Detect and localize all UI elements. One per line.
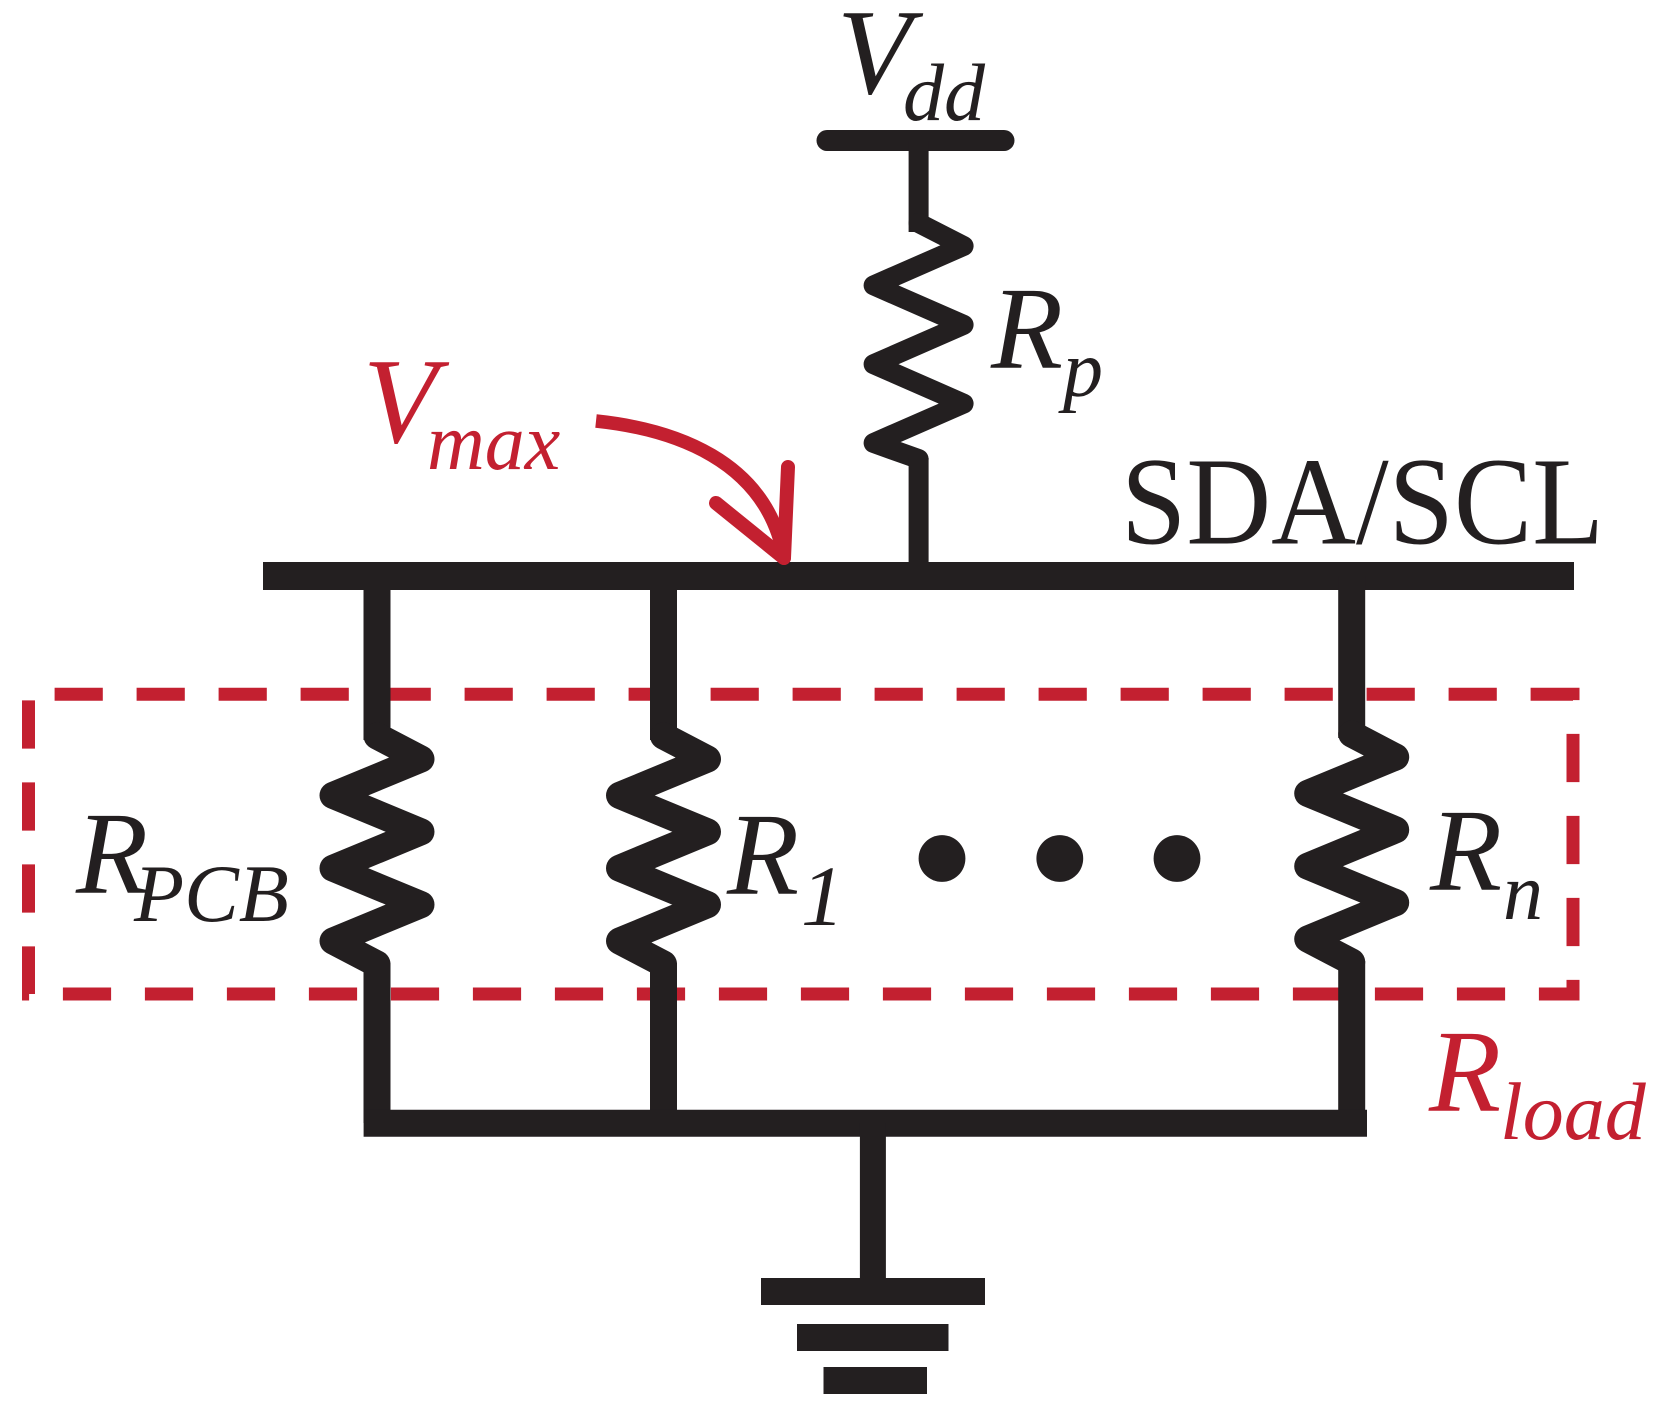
svg-text:R: R [990, 263, 1063, 394]
wire rail to ground [860, 1123, 886, 1292]
wire RPCB to bottom rail [364, 963, 391, 1123]
label RPCB [75, 788, 289, 939]
svg-text:max: max [427, 399, 560, 487]
wire R1 to bottom rail [650, 963, 677, 1123]
svg-text:R: R [726, 789, 799, 920]
wire bus to R1 [650, 576, 677, 740]
wire Rn to bottom rail [1338, 961, 1365, 1123]
wire bus to Rn [1338, 576, 1365, 738]
label Rp [990, 263, 1103, 414]
svg-text:n: n [1503, 849, 1543, 937]
svg-text:SDA/SCL: SDA/SCL [1121, 434, 1604, 572]
wire bus SDA/SCL [263, 562, 1574, 590]
ellipsis dot 3 [1154, 835, 1201, 882]
wire bus to RPCB [364, 576, 391, 740]
svg-text:load: load [1500, 1066, 1647, 1157]
wire Vdd to Rp [909, 141, 929, 232]
svg-text:1: 1 [801, 848, 844, 944]
resistor RPCB [333, 736, 421, 964]
wire Rp to bus [909, 458, 929, 576]
label Rload [1428, 1006, 1647, 1157]
ground bar 2 [797, 1324, 949, 1351]
label R1 [726, 789, 844, 944]
power rail Vdd bar [827, 130, 1004, 151]
wire bottom rail [364, 1110, 1367, 1137]
svg-text:p: p [1058, 326, 1103, 414]
svg-text:PCB: PCB [133, 848, 289, 939]
svg-text:R: R [1429, 785, 1502, 916]
node Vmax label [363, 334, 560, 487]
resistor Rn [1308, 734, 1396, 962]
label Rn [1429, 785, 1543, 937]
ellipsis dot 2 [1036, 835, 1083, 882]
svg-text:R: R [1428, 1006, 1501, 1137]
ground bar 1 [761, 1278, 985, 1305]
resistor Rp [874, 223, 964, 459]
dashed box Rload boundary [29, 694, 1574, 994]
svg-text:dd: dd [903, 47, 986, 138]
annotation arrow Vmax to bus [596, 421, 788, 558]
ellipsis dot 1 [919, 835, 966, 882]
ground bar 3 [824, 1367, 928, 1394]
resistor R1 [620, 736, 708, 964]
node Vdd label [837, 0, 986, 138]
